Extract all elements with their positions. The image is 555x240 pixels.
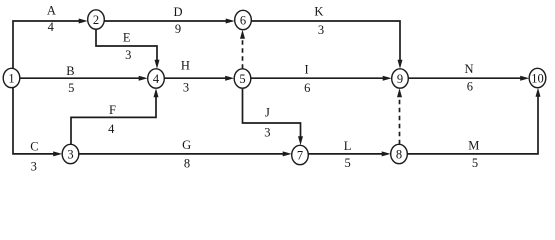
node 9 bbox=[392, 69, 409, 88]
wire activity F (3 to 4) bbox=[71, 88, 159, 144]
svg-text:6: 6 bbox=[467, 80, 473, 94]
svg-text:9: 9 bbox=[175, 22, 181, 36]
label M/5 bbox=[468, 138, 479, 170]
node 2 bbox=[88, 10, 105, 29]
svg-text:3: 3 bbox=[125, 48, 131, 62]
svg-text:5: 5 bbox=[239, 72, 245, 86]
svg-text:M: M bbox=[468, 138, 479, 152]
svg-text:3: 3 bbox=[31, 159, 37, 173]
svg-text:C: C bbox=[30, 139, 38, 153]
svg-text:2: 2 bbox=[93, 13, 99, 27]
label K/3 bbox=[314, 5, 324, 37]
wire activity G (3 to 7) bbox=[79, 151, 292, 156]
svg-text:10: 10 bbox=[531, 72, 544, 86]
svg-text:B: B bbox=[66, 64, 74, 78]
dummy dashed arrow (5 to 6) bbox=[240, 30, 245, 69]
wire activity B (1 to 4) bbox=[20, 76, 148, 81]
wire activity K (6 to 9) bbox=[251, 21, 402, 69]
node 5 bbox=[234, 69, 251, 88]
label H/3 bbox=[181, 59, 190, 95]
svg-text:H: H bbox=[181, 59, 190, 73]
svg-text:L: L bbox=[344, 139, 352, 153]
node 1 bbox=[3, 68, 20, 87]
svg-text:9: 9 bbox=[397, 72, 403, 86]
svg-text:6: 6 bbox=[304, 81, 310, 95]
svg-text:8: 8 bbox=[396, 148, 402, 162]
label A/4 bbox=[47, 4, 56, 35]
svg-text:K: K bbox=[314, 5, 323, 19]
svg-text:N: N bbox=[464, 62, 473, 76]
svg-text:1: 1 bbox=[8, 72, 14, 86]
node 6 bbox=[235, 10, 252, 29]
wire activity E (2 to 4) bbox=[96, 29, 160, 69]
label J/3 bbox=[264, 106, 270, 140]
svg-text:F: F bbox=[109, 103, 116, 117]
node 4 bbox=[148, 69, 165, 88]
svg-text:5: 5 bbox=[344, 156, 350, 170]
svg-text:4: 4 bbox=[153, 72, 160, 86]
label D/9 bbox=[173, 5, 182, 36]
svg-text:3: 3 bbox=[264, 125, 270, 139]
wire activity L (7 to 8) bbox=[308, 151, 390, 156]
svg-text:5: 5 bbox=[472, 156, 478, 170]
svg-text:3: 3 bbox=[318, 23, 324, 37]
svg-text:3: 3 bbox=[183, 80, 189, 94]
label C/3 bbox=[30, 139, 38, 173]
svg-text:7: 7 bbox=[297, 149, 303, 163]
svg-text:4: 4 bbox=[108, 122, 115, 136]
node 10 bbox=[529, 68, 546, 87]
svg-text:E: E bbox=[123, 31, 131, 45]
label N/6 bbox=[464, 62, 473, 94]
dummy dashed arrow (8 to 9) bbox=[397, 88, 402, 144]
svg-text:A: A bbox=[47, 4, 56, 18]
node 8 bbox=[391, 144, 408, 163]
svg-text:G: G bbox=[182, 138, 191, 152]
svg-text:I: I bbox=[305, 63, 309, 77]
svg-text:D: D bbox=[173, 5, 182, 19]
label E/3 bbox=[123, 31, 132, 63]
label G/8 bbox=[182, 138, 191, 171]
wire activity J (5 to 7) bbox=[243, 88, 304, 145]
svg-text:J: J bbox=[265, 106, 270, 120]
label L/5 bbox=[344, 139, 352, 170]
label I/6 bbox=[304, 63, 310, 96]
label F/4 bbox=[108, 103, 116, 136]
wire activity I (5 to 9) bbox=[251, 76, 392, 81]
svg-text:8: 8 bbox=[184, 156, 190, 170]
label B/5 bbox=[66, 64, 74, 95]
svg-text:3: 3 bbox=[67, 148, 73, 162]
wire activity D (2 to 6) bbox=[104, 19, 234, 24]
svg-text:6: 6 bbox=[240, 14, 246, 28]
svg-text:5: 5 bbox=[68, 81, 74, 95]
node 3 bbox=[62, 144, 79, 163]
wire activity A (1 to 2) bbox=[13, 19, 88, 69]
wire activity N (9 to 10) bbox=[408, 76, 529, 81]
wire activity M (8 to 10) bbox=[407, 88, 540, 154]
wire activity H (4 to 5) bbox=[164, 76, 234, 81]
node 7 bbox=[292, 145, 309, 164]
svg-text:4: 4 bbox=[48, 20, 55, 34]
wire activity C (1 to 3) bbox=[13, 88, 62, 157]
